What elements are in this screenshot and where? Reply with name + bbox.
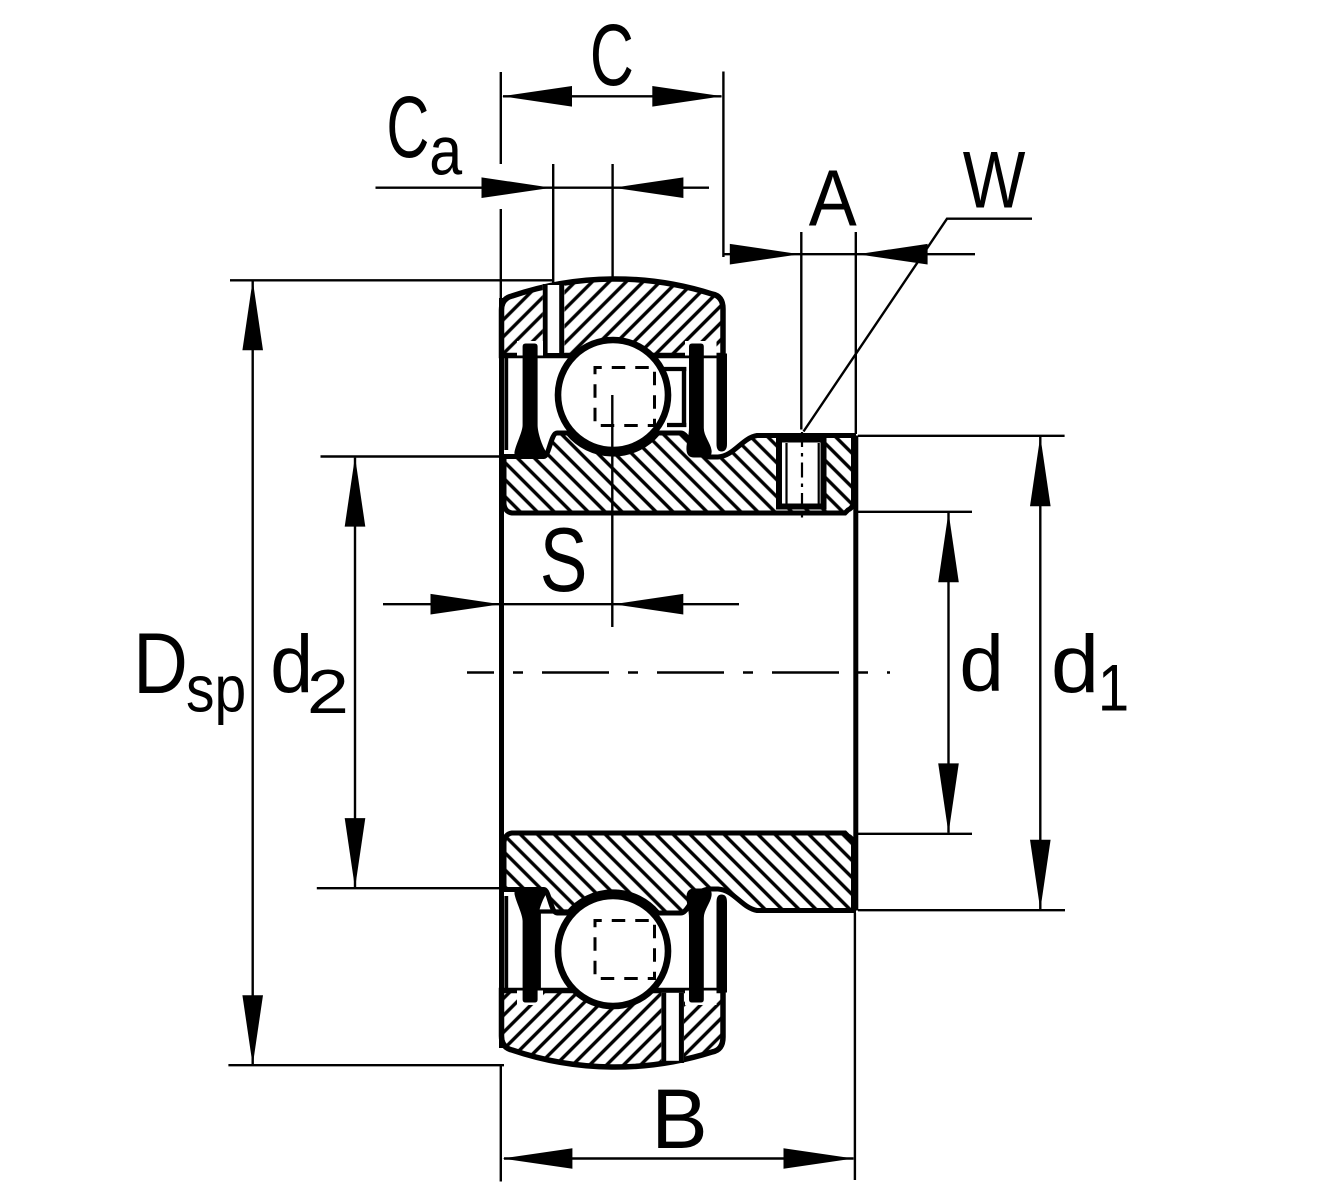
svg-text:sp: sp	[186, 653, 246, 727]
svg-text:S: S	[540, 510, 588, 611]
svg-text:C: C	[590, 6, 634, 103]
svg-text:D: D	[133, 615, 188, 712]
svg-text:B: B	[651, 1071, 708, 1166]
svg-text:W: W	[963, 134, 1026, 225]
svg-text:C: C	[386, 79, 429, 176]
svg-text:1: 1	[1098, 652, 1129, 725]
svg-text:d: d	[1051, 618, 1099, 709]
svg-text:2: 2	[307, 656, 349, 726]
svg-text:A: A	[809, 154, 857, 243]
svg-text:d: d	[959, 619, 1004, 708]
svg-text:a: a	[429, 113, 462, 190]
